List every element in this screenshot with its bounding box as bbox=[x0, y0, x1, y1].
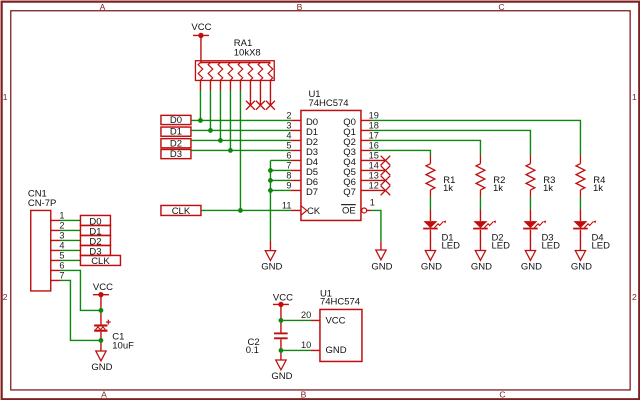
resistor array RA1 (10kX8) bbox=[195, 61, 274, 81]
CN1 pin 1 bbox=[51, 210, 65, 220]
svg-text:1k: 1k bbox=[543, 183, 553, 194]
RA1 pin 5 stub bbox=[239, 80, 241, 90]
wire net CLK label to U1 pin 11 bbox=[201, 209, 291, 211]
LED D3 value label bbox=[541, 232, 560, 251]
wire CN1 pin 2 to net D1 bbox=[60, 229, 80, 231]
ground symbol GND (LED D1) bbox=[421, 250, 442, 272]
U1 pin 13 (Q6) bbox=[343, 171, 379, 188]
wire U1 D4-D7 tie bus bbox=[270, 160, 291, 241]
wire VCC to RA1 common pin bbox=[200, 35, 202, 63]
op IC U1 name label bbox=[308, 89, 348, 109]
wire RA1 pin 2 to net D1 bbox=[209, 90, 211, 130]
frame row label 2 (right) bbox=[632, 292, 637, 302]
svg-text:1k: 1k bbox=[443, 183, 453, 194]
junction VCC-C2 node bbox=[279, 318, 284, 323]
svg-text:B: B bbox=[297, 2, 303, 12]
junction D7 tie bbox=[268, 188, 273, 193]
net label D3 (to U1) bbox=[161, 149, 191, 160]
U1 pin 14 (Q5) bbox=[343, 161, 379, 178]
junction D5 tie bbox=[268, 168, 273, 173]
svg-text:10kX8: 10kX8 bbox=[234, 48, 261, 59]
RA1 unused pin 7 bbox=[256, 80, 265, 109]
svg-text:Q7: Q7 bbox=[343, 187, 356, 198]
LED D1 bbox=[423, 209, 446, 250]
wire CN1 pin 4 to net D3 bbox=[60, 249, 80, 251]
svg-text:11: 11 bbox=[282, 200, 292, 210]
svg-text:LED: LED bbox=[491, 240, 510, 251]
svg-text:4: 4 bbox=[59, 240, 64, 250]
wire C1 to GND node bbox=[100, 332, 102, 351]
svg-text:LED: LED bbox=[591, 240, 610, 251]
CN1 pin 2 bbox=[51, 220, 65, 230]
junction GND-C2 node bbox=[279, 348, 284, 353]
RA1 pin 4 stub bbox=[229, 80, 231, 90]
svg-text:74HC574: 74HC574 bbox=[320, 297, 360, 308]
svg-text:D3: D3 bbox=[170, 149, 182, 160]
resistor R4 (1k) bbox=[576, 155, 585, 197]
net label D3 (at CN1) bbox=[80, 245, 110, 257]
svg-text:2: 2 bbox=[286, 110, 291, 120]
U1 pin 19 (Q0) bbox=[343, 111, 379, 128]
frame row label 2 (left) bbox=[3, 292, 8, 302]
wire VCC to C2 top bbox=[280, 304, 282, 332]
wire C2 node to U1 pin 10 bbox=[281, 349, 311, 351]
svg-text:LED: LED bbox=[441, 240, 460, 251]
svg-text:A: A bbox=[100, 2, 106, 12]
svg-text:C: C bbox=[498, 2, 504, 12]
connector CN1 name label bbox=[28, 189, 57, 210]
resistor array RA1 name label bbox=[234, 38, 261, 59]
svg-text:9: 9 bbox=[286, 180, 291, 190]
wire CN1 pin 7 to GND node bbox=[60, 280, 100, 340]
svg-text:CN-7P: CN-7P bbox=[28, 198, 57, 209]
svg-text:6: 6 bbox=[59, 260, 64, 270]
LED D2 bbox=[473, 209, 496, 250]
svg-text:13: 13 bbox=[369, 171, 379, 181]
U1 pin 3 (D1) bbox=[286, 120, 318, 138]
wire net Q3 from U1 to resistor column bbox=[371, 150, 431, 155]
svg-text:CLK: CLK bbox=[91, 256, 110, 267]
U1 pin 8 (D6) bbox=[286, 170, 318, 188]
svg-text:6: 6 bbox=[286, 150, 291, 160]
junction on net D1 bbox=[208, 128, 213, 133]
wire CN1 pin 5 to net CLK bbox=[60, 259, 80, 261]
U1 pin 15 (Q4) bbox=[343, 151, 379, 168]
LED D3 bbox=[523, 209, 546, 250]
frame column label B (bottom) bbox=[301, 389, 307, 399]
svg-text:C: C bbox=[499, 389, 505, 399]
svg-text:3: 3 bbox=[286, 120, 291, 130]
svg-text:1: 1 bbox=[3, 92, 8, 102]
U1 pin 5 (D3) bbox=[286, 140, 318, 158]
svg-text:5: 5 bbox=[59, 250, 64, 260]
unconnected marker on U1 pin 12 bbox=[371, 186, 390, 196]
wire R3 to D3 bbox=[529, 197, 531, 210]
svg-text:10: 10 bbox=[301, 340, 311, 350]
svg-text:CK: CK bbox=[307, 206, 321, 217]
U1 pin 6 (D4) bbox=[286, 150, 318, 168]
svg-text:1: 1 bbox=[370, 198, 375, 208]
wire VCC to C1 plus bbox=[100, 295, 102, 325]
wire RA1 pin 5 to net CLK bbox=[239, 90, 241, 210]
svg-text:15: 15 bbox=[369, 151, 379, 161]
frame column label A (bottom) bbox=[101, 389, 107, 399]
svg-text:VCC: VCC bbox=[325, 315, 345, 326]
unconnected marker on U1 pin 15 bbox=[371, 156, 390, 166]
CN1 pin 6 bbox=[51, 260, 65, 270]
wire CN1 pin 6 to VCC node bbox=[60, 270, 100, 310]
svg-text:GND: GND bbox=[271, 371, 292, 382]
capacitor C1 value label bbox=[112, 331, 134, 351]
svg-text:0.1: 0.1 bbox=[246, 345, 259, 356]
wire RA1 pin 4 to net D3 bbox=[229, 90, 231, 150]
U1 pin 11 (CK clock) bbox=[282, 200, 321, 217]
resistor R1 value label bbox=[443, 175, 455, 194]
svg-text:GND: GND bbox=[261, 261, 282, 272]
svg-text:GND: GND bbox=[325, 345, 346, 356]
svg-text:20: 20 bbox=[301, 310, 311, 320]
svg-text:74HC574: 74HC574 bbox=[308, 98, 348, 109]
unconnected marker on U1 pin 14 bbox=[371, 166, 390, 176]
junction D6 tie bbox=[268, 178, 273, 183]
net label D2 (at CN1) bbox=[80, 235, 110, 247]
frame column label C (bottom) bbox=[499, 389, 505, 399]
wire RA1 pin 1 to net D0 bbox=[199, 90, 201, 120]
ground symbol GND (LED D3) bbox=[521, 250, 542, 272]
wire net Q2 from U1 to resistor column bbox=[371, 140, 481, 155]
svg-text:VCC: VCC bbox=[273, 292, 293, 303]
RA1 unused pin 8 bbox=[266, 80, 275, 109]
U1 pin 16 (Q3) bbox=[343, 141, 379, 158]
svg-text:10uF: 10uF bbox=[112, 340, 134, 351]
svg-text:19: 19 bbox=[369, 111, 379, 121]
U1 pin 9 (D7) bbox=[286, 180, 318, 198]
svg-text:VCC: VCC bbox=[93, 282, 113, 293]
wire U1 OE to GND bbox=[371, 210, 381, 241]
svg-text:GND: GND bbox=[91, 362, 112, 373]
U1 pin 20 (VCC) bbox=[301, 310, 346, 326]
ground symbol GND (C2) bbox=[271, 360, 292, 382]
junction on net D2 bbox=[218, 138, 223, 143]
svg-text:7: 7 bbox=[59, 270, 64, 280]
resistor R3 value label bbox=[543, 175, 555, 194]
svg-text:18: 18 bbox=[369, 121, 379, 131]
RA1 unused pin 6 bbox=[246, 80, 255, 109]
wire net D0 label to U1 pin bbox=[191, 119, 291, 121]
CN1 pin 7 bbox=[51, 270, 65, 280]
CN1 pin 4 bbox=[51, 240, 65, 250]
net label D2 (to U1) bbox=[161, 138, 191, 149]
wire CN1 pin 1 to net D0 bbox=[60, 219, 80, 221]
ground symbol GND (LED D4) bbox=[571, 250, 592, 272]
junction on net CLK bbox=[238, 208, 243, 213]
svg-text:GND: GND bbox=[371, 261, 392, 272]
svg-text:14: 14 bbox=[369, 161, 379, 171]
U1 pin 2 (D0) bbox=[286, 110, 318, 128]
svg-text:3: 3 bbox=[59, 230, 64, 240]
LED D4 value label bbox=[591, 232, 610, 251]
svg-text:GND: GND bbox=[521, 261, 542, 272]
svg-text:2: 2 bbox=[59, 220, 64, 230]
svg-text:17: 17 bbox=[369, 131, 379, 141]
capacitor C2 value label bbox=[246, 337, 260, 356]
junction on net D3 bbox=[228, 148, 233, 153]
LED D4 bbox=[573, 209, 596, 250]
RA1 pin 2 stub bbox=[209, 80, 211, 90]
svg-text:VCC: VCC bbox=[191, 22, 211, 33]
svg-text:D7: D7 bbox=[306, 187, 318, 198]
net label D1 (at CN1) bbox=[80, 225, 110, 237]
ground symbol GND (LED D2) bbox=[471, 250, 492, 272]
svg-text:5: 5 bbox=[286, 140, 291, 150]
frame column label B (top) bbox=[297, 2, 303, 12]
connector CN1 (CN-7P) body bbox=[31, 210, 51, 291]
svg-text:1: 1 bbox=[632, 92, 637, 102]
svg-text:D1: D1 bbox=[170, 127, 182, 138]
junction on net D0 bbox=[198, 118, 203, 123]
power symbol VCC (top, net VCC) bbox=[191, 22, 211, 38]
svg-text:OE: OE bbox=[342, 205, 356, 216]
wire R2 to D2 bbox=[479, 197, 481, 210]
svg-text:GND: GND bbox=[471, 261, 492, 272]
IC U1 74HC574 body bbox=[301, 110, 361, 220]
net label CLK (at CN1) bbox=[80, 255, 120, 267]
frame row label 1 (right) bbox=[632, 92, 637, 102]
resistor R3 (1k) bbox=[526, 155, 535, 197]
U1 pin 1 (OE inverted output-enable) bbox=[341, 198, 375, 217]
unconnected marker on U1 pin 13 bbox=[371, 176, 390, 186]
net label D0 (to U1) bbox=[161, 115, 191, 126]
svg-text:GND: GND bbox=[421, 261, 442, 272]
svg-text:CLK: CLK bbox=[172, 206, 191, 217]
resistor R4 value label bbox=[593, 175, 605, 194]
wire net D3 label to U1 pin bbox=[191, 149, 291, 151]
LED D2 value label bbox=[491, 232, 510, 251]
CN1 pin 5 bbox=[51, 250, 65, 260]
wire net Q1 from U1 to resistor column bbox=[371, 130, 531, 155]
ground symbol GND (OE) bbox=[371, 241, 392, 272]
CN1 pin 3 bbox=[51, 230, 65, 240]
frame column label A (top) bbox=[100, 2, 106, 12]
svg-text:1k: 1k bbox=[493, 183, 503, 194]
svg-text:4: 4 bbox=[286, 130, 291, 140]
U1 pin 18 (Q1) bbox=[343, 121, 379, 138]
wire net D1 label to U1 pin bbox=[191, 129, 291, 131]
power symbol VCC (near C2) bbox=[273, 292, 293, 307]
IC U1 power gate body bbox=[320, 309, 362, 361]
IC U1 power gate name label bbox=[320, 288, 360, 307]
svg-text:1k: 1k bbox=[593, 183, 603, 194]
ground symbol GND (D4-D7 tie) bbox=[261, 241, 282, 273]
junction GND node at C1 bbox=[99, 338, 104, 343]
frame column label C (top) bbox=[498, 2, 504, 12]
U1 pin 12 (Q7) bbox=[343, 181, 379, 198]
RA1 pin 1 stub bbox=[199, 80, 201, 90]
wire RA1 pin 3 to net D2 bbox=[219, 90, 221, 140]
svg-text:7: 7 bbox=[286, 160, 291, 170]
U1 pin 10 (GND) bbox=[301, 340, 347, 356]
resistor R2 (1k) bbox=[476, 155, 485, 197]
wire net D2 label to U1 pin bbox=[191, 139, 291, 141]
U1 pin 4 (D2) bbox=[286, 130, 318, 148]
svg-text:2: 2 bbox=[632, 292, 637, 302]
svg-text:D0: D0 bbox=[170, 115, 182, 126]
svg-text:B: B bbox=[301, 389, 307, 399]
svg-text:1: 1 bbox=[59, 210, 64, 220]
net label D1 (to U1) bbox=[161, 127, 191, 138]
resistor R1 (1k) bbox=[426, 155, 435, 197]
capacitor C1 (10uF polarized) bbox=[94, 320, 111, 332]
wire net Q0 from U1 to resistor column bbox=[371, 120, 581, 155]
svg-text:12: 12 bbox=[369, 181, 379, 191]
junction VCC node at C1 bbox=[99, 308, 104, 313]
ground symbol GND (C1) bbox=[91, 351, 112, 373]
wire C2 bottom to GND bbox=[280, 339, 282, 360]
svg-text:LED: LED bbox=[541, 240, 560, 251]
U1 pin 17 (Q2) bbox=[343, 131, 379, 148]
svg-text:GND: GND bbox=[571, 261, 592, 272]
svg-text:D2: D2 bbox=[170, 138, 182, 149]
U1 pin 7 (D5) bbox=[286, 160, 318, 178]
svg-text:8: 8 bbox=[286, 170, 291, 180]
wire CN1 pin 3 to net D2 bbox=[60, 239, 80, 241]
frame row label 1 (left) bbox=[3, 92, 8, 102]
wire R4 to D4 bbox=[579, 197, 581, 210]
resistor R2 value label bbox=[493, 175, 505, 194]
svg-text:16: 16 bbox=[369, 141, 379, 151]
net label D0 (at CN1) bbox=[80, 215, 110, 227]
svg-text:2: 2 bbox=[3, 292, 8, 302]
wire R1 to D1 bbox=[429, 197, 431, 210]
power symbol VCC (near C1) bbox=[93, 282, 113, 297]
RA1 pin 3 stub bbox=[219, 80, 221, 90]
net label CLK (to U1) bbox=[161, 205, 201, 217]
capacitor C2 (0.1) bbox=[274, 332, 288, 339]
LED D1 value label bbox=[441, 232, 460, 251]
wire C2 node to U1 pin 20 bbox=[281, 319, 311, 321]
svg-text:A: A bbox=[101, 389, 107, 399]
